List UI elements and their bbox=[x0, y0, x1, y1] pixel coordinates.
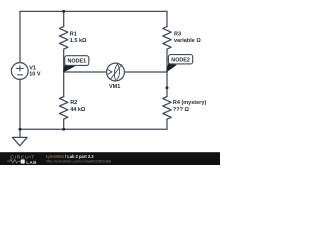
resistor R4 zigzag bbox=[163, 97, 171, 120]
voltmeter VM1 circle bbox=[107, 63, 125, 81]
node NODE2 flag pointer bbox=[166, 63, 177, 73]
VM1 needle bbox=[110, 64, 122, 79]
wire left branch lower bbox=[19, 79, 21, 129]
CircuitLab logo icon square bbox=[21, 159, 25, 163]
voltage source V1 circle bbox=[11, 63, 28, 80]
CircuitLab logo zigzag bbox=[7, 160, 20, 163]
wire right branch bottom lead bbox=[166, 119, 168, 129]
resistor R1 zigzag bbox=[60, 26, 68, 49]
svg-text:??? Ω: ??? Ω bbox=[173, 107, 190, 113]
svg-text:44 kΩ: 44 kΩ bbox=[70, 107, 86, 113]
wire middle branch bottom lead bbox=[63, 119, 65, 129]
node NODE1 flag box bbox=[65, 56, 89, 66]
svg-text:1.5 kΩ: 1.5 kΩ bbox=[70, 38, 87, 44]
ground stub wire bbox=[19, 129, 21, 137]
wire middle branch between NODE1 and R2 bbox=[63, 72, 65, 97]
wire right branch top lead bbox=[166, 11, 168, 26]
wire right branch between NODE2 and R4 bbox=[166, 72, 168, 97]
svg-text:10 V: 10 V bbox=[29, 72, 41, 78]
resistor R2 zigzag bbox=[60, 97, 68, 120]
V1 minus sign bbox=[17, 74, 23, 76]
svg-text:VM1: VM1 bbox=[109, 84, 120, 90]
svg-text:R4 (mystery): R4 (mystery) bbox=[173, 100, 206, 106]
wire middle horizontal left of VM1 bbox=[64, 71, 107, 73]
svg-text:http://circuitlab.com/c/daa662: http://circuitlab.com/c/daa6629b5d66 bbox=[46, 158, 112, 163]
wire bottom rail bbox=[20, 128, 167, 130]
svg-text:NODE1: NODE1 bbox=[68, 59, 87, 65]
svg-text:LAB: LAB bbox=[26, 160, 37, 165]
V1 plus sign bbox=[16, 65, 24, 71]
wire middle branch between R1 and NODE1 bbox=[63, 49, 65, 72]
svg-text:R3: R3 bbox=[174, 32, 181, 38]
VM1 polarity arrow bbox=[108, 70, 112, 75]
resistor R3 zigzag bbox=[163, 26, 171, 49]
junction dot right branch bbox=[166, 86, 169, 89]
svg-text:variable Ω: variable Ω bbox=[174, 38, 201, 44]
wire top rail bbox=[20, 10, 167, 12]
ground symbol triangle bbox=[12, 137, 27, 145]
junction dot bottom middle bbox=[62, 128, 65, 131]
wire middle branch top lead bbox=[63, 11, 65, 26]
svg-text:V1: V1 bbox=[29, 65, 36, 71]
junction dot bottom left bbox=[19, 128, 22, 131]
svg-text:NODE2: NODE2 bbox=[171, 57, 190, 63]
junction dot top rail bbox=[62, 10, 65, 13]
wire left branch upper bbox=[19, 11, 21, 62]
node NODE2 flag box bbox=[168, 55, 192, 64]
svg-text:R2: R2 bbox=[70, 100, 77, 106]
node NODE1 flag pointer bbox=[63, 64, 76, 73]
wire middle horizontal right of VM1 bbox=[124, 71, 167, 73]
svg-text:R1: R1 bbox=[70, 32, 77, 38]
wire right branch between R3 and NODE2 bbox=[166, 49, 168, 72]
watermark bar bbox=[0, 152, 220, 165]
VM1 meter arcs bbox=[114, 64, 119, 81]
